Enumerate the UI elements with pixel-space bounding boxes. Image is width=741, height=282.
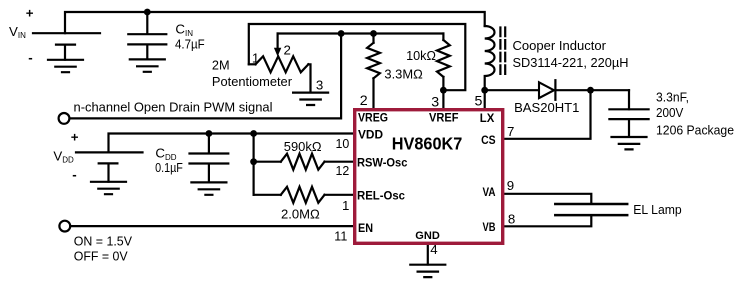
resistor 2.0M [254, 194, 281, 196]
node LX dot [481, 87, 488, 94]
diode D1 triangle [539, 82, 554, 98]
svg-text:4.7µF: 4.7µF [175, 37, 205, 52]
svg-text:9: 9 [507, 178, 514, 193]
capacitor C_IN [128, 12, 166, 59]
svg-text:10kΩ: 10kΩ [406, 48, 436, 63]
ground GND pin [410, 265, 445, 277]
wire LX pin 5 [484, 90, 486, 108]
wire CS pin 7 [505, 90, 591, 139]
svg-text:0.1µF: 0.1µF [155, 160, 183, 175]
svg-text:VREF: VREF [429, 111, 459, 125]
junction osc branch dot [250, 130, 257, 137]
ground C_DD [191, 182, 226, 194]
svg-text:11: 11 [334, 228, 347, 243]
svg-text:3: 3 [316, 78, 323, 93]
junction 3.3M tap dot [370, 30, 377, 37]
svg-text:3.3nF,: 3.3nF, [656, 89, 689, 104]
svg-text:GND: GND [415, 230, 440, 242]
svg-text:-: - [28, 50, 32, 65]
svg-text:12: 12 [336, 163, 350, 178]
svg-text:590kΩ: 590kΩ [284, 139, 322, 154]
wire row2 wiper rail [278, 32, 444, 34]
svg-text:BAS20HT1: BAS20HT1 [514, 100, 579, 115]
svg-text:SD3114-221, 220µH: SD3114-221, 220µH [513, 55, 629, 70]
wire diode to cap node [555, 89, 629, 91]
svg-text:LX: LX [480, 111, 495, 125]
ground C2 [612, 137, 647, 149]
svg-text:Potentiometer: Potentiometer [212, 74, 293, 89]
capacitor C2 3.3nF [609, 109, 648, 137]
node VREF dot [440, 87, 447, 94]
ground pot pin 3 [293, 93, 328, 105]
svg-text:10: 10 [336, 136, 350, 151]
terminal EN input [59, 221, 70, 232]
svg-text:VREG: VREG [358, 111, 388, 125]
wire row1 pot pin1 to VREF node [249, 24, 465, 90]
svg-text:REL-Osc: REL-Osc [357, 189, 405, 203]
svg-text:2M: 2M [212, 57, 230, 72]
svg-text:Cooper Inductor: Cooper Inductor [513, 38, 607, 53]
wire osc resistor branch [253, 134, 255, 195]
svg-text:+: + [71, 129, 79, 144]
svg-text:200V: 200V [656, 105, 683, 120]
svg-text:n-channel Open Drain PWM signa: n-channel Open Drain PWM signal [74, 99, 273, 114]
junction C_IN tap dot [144, 9, 151, 16]
ground VIN [48, 60, 83, 72]
resistor 10k [442, 34, 444, 41]
svg-text:8: 8 [508, 211, 515, 226]
wire top rail VIN to inductor [65, 12, 485, 33]
svg-text:3.3MΩ: 3.3MΩ [384, 67, 422, 82]
op-amp U1 HV860K7 IC body [355, 110, 503, 244]
svg-text:4: 4 [430, 242, 437, 257]
svg-text:5: 5 [475, 94, 483, 110]
svg-text:HV860K7: HV860K7 [392, 134, 463, 154]
svg-text:7: 7 [507, 124, 514, 139]
wire VB pin 8 to lamp [505, 215, 592, 226]
junction 590k tap dot [250, 158, 257, 165]
EL lamp plates [555, 204, 627, 215]
svg-text:VA: VA [483, 185, 496, 199]
svg-text:ON = 1.5V: ON = 1.5V [74, 234, 132, 249]
svg-text:-: - [72, 167, 76, 182]
battery VIN [33, 33, 100, 59]
svg-text:VB: VB [483, 220, 496, 234]
svg-text:VDD: VDD [358, 127, 383, 141]
svg-text:CS: CS [481, 133, 496, 147]
svg-text:RSW-Osc: RSW-Osc [357, 156, 408, 170]
capacitor C_DD [190, 134, 229, 183]
svg-text:2: 2 [360, 93, 368, 109]
junction PWM-wiper dot [338, 30, 345, 37]
wire VA pin 9 to lamp [505, 194, 592, 204]
ground VDD [91, 182, 126, 194]
svg-text:1: 1 [342, 198, 349, 213]
wire LX node to diode [485, 89, 538, 91]
pot wiper arrow shaft [277, 34, 279, 50]
svg-text:OFF = 0V: OFF = 0V [74, 249, 128, 264]
battery VDD [76, 152, 143, 181]
wire VDD rail [109, 134, 354, 153]
svg-text:EN: EN [358, 221, 373, 235]
diode D1 cathode bar [554, 80, 556, 100]
inductor L1 coil [485, 26, 495, 90]
svg-text:EL Lamp: EL Lamp [633, 202, 681, 217]
wire PWM input [69, 34, 341, 119]
resistor 3.3M [372, 34, 374, 43]
wire GND pin 4 [427, 244, 429, 265]
wire VREF pin 3 [442, 90, 444, 108]
svg-text:+: + [26, 5, 34, 20]
potentiometer R_pot zigzag [249, 63, 256, 65]
svg-text:1206 Package: 1206 Package [656, 123, 734, 138]
junction C_DD tap dot [206, 130, 213, 137]
pot wiper arrowhead [274, 48, 281, 57]
svg-text:1: 1 [252, 51, 259, 66]
node CS-cap dot [587, 87, 594, 94]
inductor core dashes [500, 28, 505, 75]
resistor 590k [254, 161, 281, 163]
wire EN pin 11 [71, 225, 354, 227]
svg-text:2.0MΩ: 2.0MΩ [281, 207, 320, 222]
ground C_IN [130, 59, 165, 71]
svg-text:2: 2 [284, 43, 291, 58]
terminal PWM input [59, 113, 70, 124]
wire node down to capacitor 3.3nF [628, 90, 630, 109]
svg-text:3: 3 [431, 95, 439, 111]
